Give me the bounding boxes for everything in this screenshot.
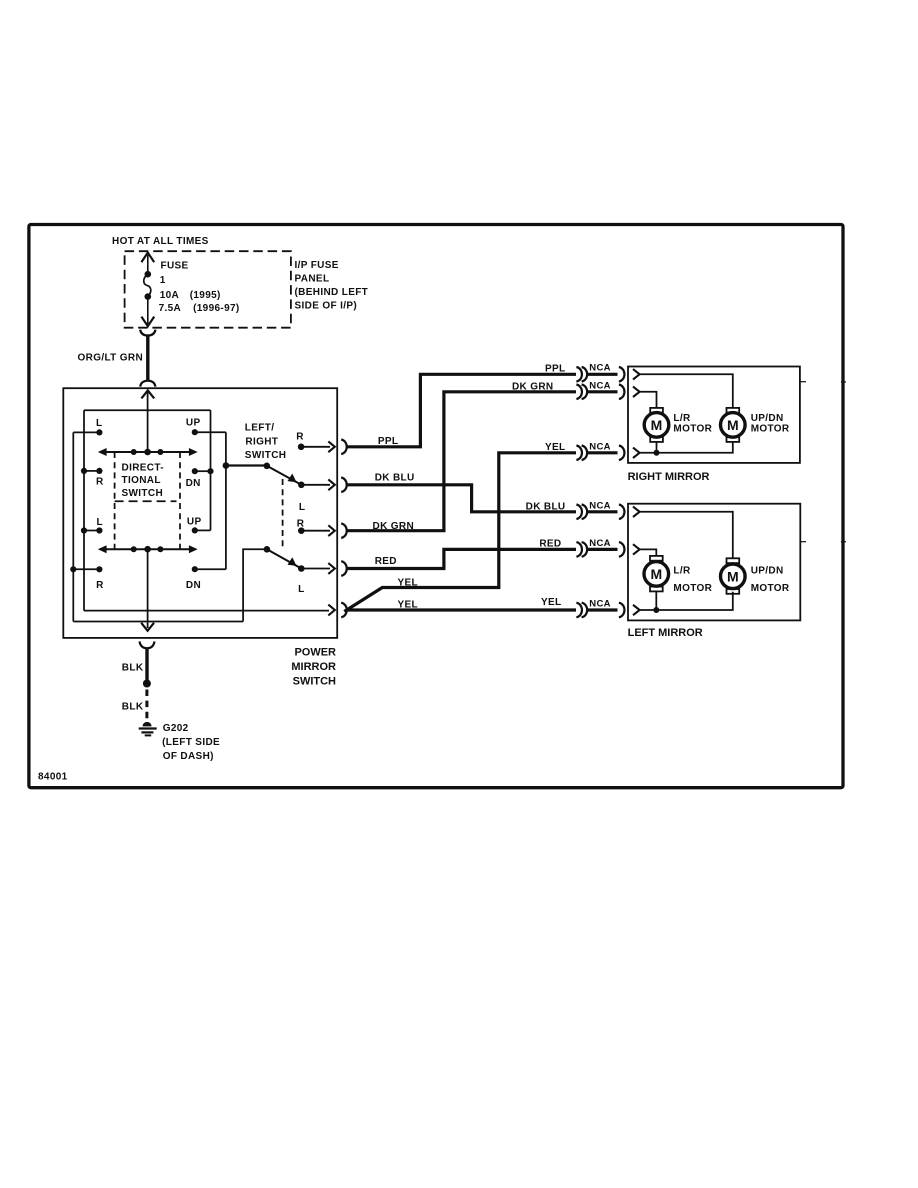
svg-text:DK BLU: DK BLU [375,472,415,483]
wire L2 to inner rail [84,530,99,532]
arrow up at fuse top [141,253,154,263]
wire BLK dashed to ground [145,690,148,720]
svg-text:MOTOR: MOTOR [673,423,712,434]
wire row3 to edge [301,530,330,532]
svg-text:1: 1 [160,275,166,286]
svg-text:YEL: YEL [541,597,562,608]
wire YEL common left [640,592,733,610]
connector cup row4 [341,561,347,576]
arrow up inside switch box top [141,390,154,398]
switch blade 1 [267,466,302,485]
svg-text:(BEHIND LEFT: (BEHIND LEFT [295,287,369,298]
wire bus2 center down to exit [147,549,149,628]
svg-text:MOTOR: MOTOR [673,583,712,594]
svg-text:YEL: YEL [398,600,419,611]
connector (female cup) under fuse panel [140,330,155,336]
connector cup below switch box [140,641,155,648]
connector NCA DK BLU [576,505,624,520]
motor UP/DN (right mirror) [721,408,746,442]
svg-text:UP/DN: UP/DN [751,565,784,576]
terminal DN (row2 right) [192,468,198,474]
svg-text:RED: RED [375,556,397,567]
connector NCA PPL [576,367,624,382]
wire inner rail top horizontal y=410.2 [84,409,211,411]
terminal dot R row1 [298,444,305,451]
left mirror box [628,504,800,621]
wire inner rail vertical x=84 [83,410,85,610]
svg-text:L: L [299,502,305,513]
contact dot row4 L [298,565,305,572]
svg-text:BLK: BLK [122,702,144,713]
svg-text:YEL: YEL [398,578,419,589]
svg-text:(1995): (1995) [190,290,221,301]
svg-text:7.5A: 7.5A [159,303,182,314]
dashed coupling between blades [282,479,284,548]
arrow down inside switch box bottom [141,623,154,631]
svg-text:(1996-97): (1996-97) [193,303,240,314]
svg-text:UP: UP [186,418,201,429]
connector cup row5 [341,603,347,618]
wire bottom output y=610.6 to exit arrow [84,610,329,612]
wire R1 to inner rail [84,470,99,472]
wire row1 R to edge [301,446,330,448]
motor L/R (right mirror) [644,408,669,442]
wire RED to l/r motor [640,549,657,556]
svg-text:NCA: NCA [589,441,610,452]
wire RED [347,549,576,568]
wire bottom horizontal y=621.5 to pivot2 riser [73,621,243,623]
svg-text:PPL: PPL [545,363,566,374]
junction dot inner rail / R1 [81,468,87,474]
wire DK BLU [347,485,576,512]
svg-text:LEFT MIRROR: LEFT MIRROR [628,627,703,639]
entry arrow DK GRN [633,387,640,397]
connector NCA DK GRN [576,385,624,400]
arrow out row1 [328,441,335,452]
svg-text:LEFT/: LEFT/ [245,423,275,434]
junction dot left rail / R2 [70,566,76,572]
svg-text:L/R: L/R [673,565,691,576]
directional switch bus 2 (with end arrows and 3 dots) [103,548,193,550]
stub l/r motor to yel [656,442,658,453]
connector NCA YEL left [576,603,624,618]
svg-text:DN: DN [186,580,201,591]
svg-text:DK BLU: DK BLU [526,501,566,512]
entry arrow PPL [633,369,640,379]
junction dot inner rail / L2 [81,527,87,533]
arrow out row2 [328,479,335,490]
directional switch dashed divider [115,500,177,502]
wire YEL to left mirror (straight) [347,608,576,611]
svg-text:SWITCH: SWITCH [122,488,164,499]
svg-text:RED: RED [539,539,561,550]
svg-text:DIRECT-: DIRECT- [122,462,164,473]
wire R2 to left rail [73,568,99,570]
switch blade 2 [267,549,301,568]
wire riser x=243.1 up to pivot2 [243,549,264,621]
entry arrow YEL [633,448,640,458]
svg-text:DN: DN [186,478,201,489]
junction dot inner right rail / DN1 [207,468,213,474]
wire BLK thick [145,648,148,681]
wire feed to pivot1 [226,464,267,466]
svg-text:PANEL: PANEL [295,273,330,284]
terminal R (row2 left) [96,468,102,474]
svg-text:MOTOR: MOTOR [751,583,790,594]
svg-text:NCA: NCA [589,538,610,549]
directional switch dashed outline left [114,452,116,549]
svg-text:R: R [96,476,104,487]
power mirror switch box [63,388,337,638]
stub l/r motor to yel left [655,591,657,610]
wire fuse feed upper stem [147,255,149,272]
terminal UP (upper right) [192,429,198,435]
svg-text:DK GRN: DK GRN [373,521,415,532]
wire outer right rail vertical x=225.9 [225,432,227,569]
right mirror box [628,367,800,463]
svg-text:L: L [97,517,103,528]
wire feed stem to bus1 [147,392,149,453]
svg-text:SIDE OF I/P): SIDE OF I/P) [295,300,358,311]
svg-text:I/P FUSE: I/P FUSE [295,260,339,271]
blade 2 arrowhead [288,557,297,566]
svg-text:M: M [651,417,663,433]
connector cup row1 [341,440,347,455]
svg-text:YEL: YEL [545,442,566,453]
directional switch bus 1 (with end arrows and 3 dots) [103,451,193,453]
pivot dot 1 [264,463,271,470]
svg-text:NCA: NCA [589,380,610,391]
svg-text:PPL: PPL [378,436,399,447]
wire YEL to right mirror (diagonal rise) [344,453,576,612]
svg-text:M: M [727,568,739,584]
wire YEL common [640,442,733,453]
wire UP1 to outer right rail [195,431,226,433]
arrow down at fuse bottom [141,317,154,327]
svg-text:NCA: NCA [589,599,610,610]
svg-text:R: R [96,580,104,591]
terminal L (upper left) [96,429,102,435]
wire ORG/LT GRN (thick vertical) [146,335,149,382]
directional switch dashed outline right [179,452,181,549]
wire PPL to up/dn motor [640,374,733,408]
wire DK GRN [347,392,576,531]
junction dot feed to left/right switch [223,462,230,469]
svg-text:L: L [96,418,102,429]
svg-text:84001: 84001 [38,772,68,783]
svg-text:POWER: POWER [294,646,336,658]
terminal UP (row3 right) [192,527,198,533]
svg-text:MOTOR: MOTOR [751,423,790,434]
terminal dot R row3 [298,527,305,534]
entry arrow DK BLU [633,507,640,517]
svg-text:DK GRN: DK GRN [512,381,554,392]
svg-text:G202: G202 [163,723,189,734]
svg-text:RIGHT MIRROR: RIGHT MIRROR [628,471,710,483]
svg-text:R: R [297,519,305,530]
blade 1 arrowhead [288,474,297,483]
entry arrow YEL [633,605,640,615]
wire UP2 to inner right rail [195,529,211,531]
svg-text:10A: 10A [160,290,179,301]
svg-text:RIGHT: RIGHT [245,437,278,448]
svg-text:NCA: NCA [589,362,610,373]
junction dot yel / l/r motor left [653,607,659,613]
motor UP/DN (left mirror) [721,558,746,594]
junction dot yel / l/r motor [654,450,660,456]
arrow out row5 (yel) [328,605,335,616]
svg-text:SWITCH: SWITCH [245,450,287,461]
arrow out row4 [328,563,335,574]
terminal R (bottom left) [96,566,102,572]
connector cup row2 [341,478,347,493]
motor L/R (left mirror) [644,556,669,591]
wire DN1 to inner right rail [195,470,211,472]
wire inner rail right vertical x=210.5 [210,410,212,530]
wire row2 to edge [301,484,330,486]
fuse 1 element (two dots + S curve) [145,271,152,278]
splice dot S [143,680,151,688]
svg-text:(LEFT SIDE: (LEFT SIDE [162,737,220,748]
connector cup row3 [341,523,347,538]
wire L1 to left rail [73,431,99,433]
svg-text:FUSE: FUSE [161,261,189,272]
svg-text:TIONAL: TIONAL [122,475,161,486]
wire row4 to edge [301,568,330,570]
connector NCA RED [576,542,624,557]
svg-text:HOT AT ALL TIMES: HOT AT ALL TIMES [112,236,209,247]
terminal L (row3 left) [96,527,102,533]
arrow out row3 [328,525,335,536]
connector NCA YEL right [576,446,624,461]
terminal DN (bottom right) [192,566,198,572]
wire fuse lower stem [147,297,149,324]
svg-text:OF DASH): OF DASH) [163,751,214,762]
connector (female cup) above switch box [140,381,155,387]
svg-text:BLK: BLK [122,663,144,674]
svg-text:ORG/LT GRN: ORG/LT GRN [78,352,144,363]
entry arrow RED [633,544,640,554]
page border frame [29,225,843,788]
wire DK BLU to up/dn motor [640,512,733,559]
svg-text:MIRROR: MIRROR [291,661,336,673]
svg-text:NCA: NCA [589,500,610,511]
svg-text:R: R [296,432,304,443]
I/P fuse panel dashed box [125,251,291,328]
pivot dot 2 [264,546,271,553]
svg-text:UP: UP [187,516,202,527]
svg-text:M: M [727,417,739,433]
ground symbol G202 [143,722,152,727]
svg-text:SWITCH: SWITCH [293,675,336,687]
wire DK GRN to l/r motor [640,392,657,409]
wire DN2 to outer right rail [195,568,226,570]
svg-text:M: M [650,566,662,582]
tick marks on page border [841,381,846,383]
wire PPL [347,374,576,447]
wire left rail vertical x=73.3 [72,432,74,621]
contact dot row2 L [298,482,305,489]
svg-text:L: L [298,584,304,595]
